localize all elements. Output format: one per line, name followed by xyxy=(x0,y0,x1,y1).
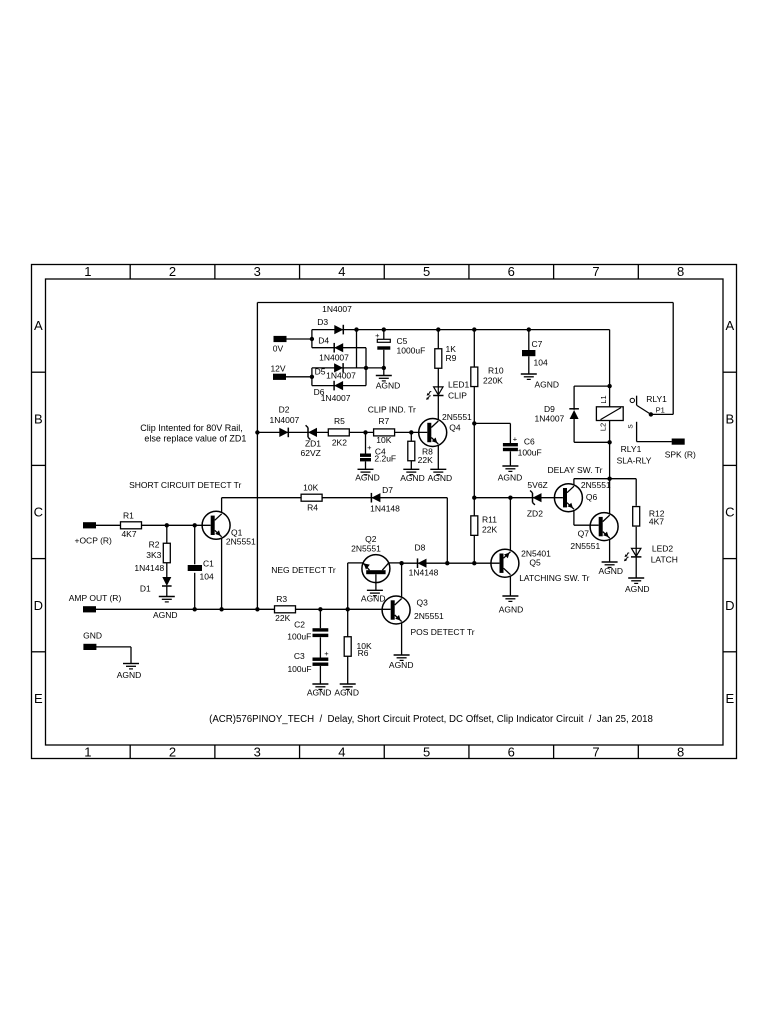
svg-text:C: C xyxy=(725,505,734,520)
svg-text:2: 2 xyxy=(169,264,176,279)
svg-text:Q6: Q6 xyxy=(586,492,598,502)
svg-text:AGND: AGND xyxy=(361,593,386,603)
svg-text:5V6Z: 5V6Z xyxy=(527,480,547,490)
svg-text:4K7: 4K7 xyxy=(649,517,664,527)
svg-text:100uF: 100uF xyxy=(287,664,311,674)
svg-text:4: 4 xyxy=(338,264,345,279)
svg-text:+: + xyxy=(375,331,380,340)
svg-text:LATCHING SW. Tr: LATCHING SW. Tr xyxy=(519,573,589,583)
svg-text:5: 5 xyxy=(423,744,430,759)
svg-text:4K7: 4K7 xyxy=(121,529,136,539)
svg-text:D3: D3 xyxy=(317,317,328,327)
svg-text:D5: D5 xyxy=(315,366,326,376)
svg-text:+: + xyxy=(513,435,518,444)
svg-text:2N5551: 2N5551 xyxy=(581,480,611,490)
svg-text:1N4007: 1N4007 xyxy=(270,415,300,425)
svg-text:1N4148: 1N4148 xyxy=(409,568,439,578)
svg-text:104: 104 xyxy=(534,358,548,368)
svg-text:R2: R2 xyxy=(149,539,160,549)
svg-text:RLY1: RLY1 xyxy=(646,394,667,404)
svg-text:1N4007: 1N4007 xyxy=(322,304,352,314)
svg-text:R4: R4 xyxy=(307,503,318,513)
svg-text:1N4148: 1N4148 xyxy=(370,504,400,514)
svg-text:AGND: AGND xyxy=(599,566,624,576)
svg-text:3: 3 xyxy=(254,264,261,279)
svg-text:2N5551: 2N5551 xyxy=(570,541,600,551)
svg-text:R11: R11 xyxy=(482,515,497,525)
svg-text:DELAY SW. Tr: DELAY SW. Tr xyxy=(548,465,603,475)
svg-text:D8: D8 xyxy=(414,543,425,553)
svg-text:8: 8 xyxy=(677,264,684,279)
svg-text:100uF: 100uF xyxy=(287,631,311,641)
svg-text:Q5: Q5 xyxy=(529,558,541,568)
svg-text:7: 7 xyxy=(592,744,599,759)
svg-text:1: 1 xyxy=(84,264,91,279)
svg-text:A: A xyxy=(34,318,43,333)
svg-text:D9: D9 xyxy=(544,404,555,414)
svg-text:2N5551: 2N5551 xyxy=(226,537,256,547)
svg-text:1: 1 xyxy=(84,744,91,759)
svg-text:D4: D4 xyxy=(318,336,329,346)
svg-text:C: C xyxy=(34,505,43,520)
svg-text:AGND: AGND xyxy=(625,584,650,594)
svg-text:D7: D7 xyxy=(382,485,393,495)
svg-text:3: 3 xyxy=(254,744,261,759)
svg-text:Q4: Q4 xyxy=(449,422,461,432)
svg-text:AGND: AGND xyxy=(307,688,332,698)
svg-text:SPK (R): SPK (R) xyxy=(665,450,696,460)
svg-text:1N4007: 1N4007 xyxy=(319,353,349,363)
svg-text:D1: D1 xyxy=(140,583,151,593)
svg-text:10K: 10K xyxy=(303,483,318,493)
svg-text:R5: R5 xyxy=(334,416,345,426)
svg-text:B: B xyxy=(34,411,43,426)
svg-text:2N5551: 2N5551 xyxy=(351,544,381,554)
svg-text:+: + xyxy=(367,443,372,452)
svg-text:4: 4 xyxy=(338,744,345,759)
svg-text:R10: R10 xyxy=(488,366,504,376)
svg-text:5: 5 xyxy=(423,264,430,279)
svg-text:L1: L1 xyxy=(599,395,608,403)
svg-text:C5: C5 xyxy=(397,336,408,346)
svg-text:P1: P1 xyxy=(656,406,665,415)
svg-text:12V: 12V xyxy=(270,363,285,373)
svg-text:1N4148: 1N4148 xyxy=(134,563,164,573)
svg-text:POS DETECT Tr: POS DETECT Tr xyxy=(410,627,474,637)
svg-text:AGND: AGND xyxy=(389,660,414,670)
svg-text:D2: D2 xyxy=(279,405,290,415)
svg-text:LATCH: LATCH xyxy=(651,554,678,564)
svg-text:R7: R7 xyxy=(378,416,389,426)
svg-text:0V: 0V xyxy=(273,344,284,354)
svg-text:Q2: Q2 xyxy=(365,534,377,544)
svg-text:104: 104 xyxy=(200,572,214,582)
svg-text:GND: GND xyxy=(83,631,102,641)
svg-text:AGND: AGND xyxy=(535,379,560,389)
svg-text:Clip Intented for 80V Rail,: Clip Intented for 80V Rail, xyxy=(140,423,243,433)
svg-text:6: 6 xyxy=(508,264,515,279)
svg-text:AGND: AGND xyxy=(498,473,523,483)
svg-text:CLIP IND. Tr: CLIP IND. Tr xyxy=(368,405,416,415)
svg-text:D: D xyxy=(725,598,734,613)
svg-text:ZD1: ZD1 xyxy=(305,438,321,448)
svg-text:C1: C1 xyxy=(203,558,214,568)
svg-text:R6: R6 xyxy=(358,648,369,658)
svg-text:3K3: 3K3 xyxy=(146,550,161,560)
svg-text:2: 2 xyxy=(169,744,176,759)
svg-text:ZD2: ZD2 xyxy=(527,509,543,519)
svg-text:2.2uF: 2.2uF xyxy=(374,454,396,464)
svg-text:AGND: AGND xyxy=(376,380,401,390)
svg-text:7: 7 xyxy=(592,264,599,279)
svg-text:else replace value of ZD1: else replace value of ZD1 xyxy=(144,433,246,443)
svg-text:22K: 22K xyxy=(482,524,497,534)
svg-text:22K: 22K xyxy=(418,455,433,465)
svg-text:AGND: AGND xyxy=(355,473,380,483)
svg-text:Q3: Q3 xyxy=(417,598,429,608)
svg-text:62VZ: 62VZ xyxy=(301,448,321,458)
svg-text:C6: C6 xyxy=(524,437,535,447)
svg-text:2N5551: 2N5551 xyxy=(442,412,472,422)
svg-text:L2: L2 xyxy=(599,423,608,431)
svg-text:1N4007: 1N4007 xyxy=(535,414,565,424)
svg-text:10K: 10K xyxy=(376,435,391,445)
svg-text:SLA-RLY: SLA-RLY xyxy=(617,456,652,466)
svg-text:+OCP (R): +OCP (R) xyxy=(74,535,112,545)
svg-text:C2: C2 xyxy=(294,619,305,629)
svg-text:C7: C7 xyxy=(532,339,543,349)
svg-text:A: A xyxy=(725,318,734,333)
svg-text:RLY1: RLY1 xyxy=(621,444,642,454)
svg-text:AGND: AGND xyxy=(153,610,178,620)
svg-text:AGND: AGND xyxy=(499,604,524,614)
svg-text:LED2: LED2 xyxy=(652,543,674,553)
svg-text:22K: 22K xyxy=(275,613,290,623)
svg-text:E: E xyxy=(725,691,734,706)
svg-text:NEG DETECT Tr: NEG DETECT Tr xyxy=(271,565,336,575)
svg-text:AMP OUT (R): AMP OUT (R) xyxy=(69,593,122,603)
svg-text:+: + xyxy=(324,649,329,658)
svg-text:S: S xyxy=(627,424,634,429)
svg-text:AGND: AGND xyxy=(400,473,425,483)
svg-text:1N4007: 1N4007 xyxy=(326,371,356,381)
svg-text:AGND: AGND xyxy=(334,688,359,698)
svg-text:E: E xyxy=(34,691,43,706)
svg-text:R9: R9 xyxy=(446,353,457,363)
svg-text:Q7: Q7 xyxy=(578,528,590,538)
svg-text:100uF: 100uF xyxy=(518,448,542,458)
svg-text:(ACR)576PINOY_TECH / Delay,: (ACR)576PINOY_TECH / Delay, Short Circui… xyxy=(209,714,653,725)
svg-text:D: D xyxy=(34,598,43,613)
svg-text:AGND: AGND xyxy=(428,473,453,483)
svg-text:8: 8 xyxy=(677,744,684,759)
svg-text:220K: 220K xyxy=(483,376,503,386)
svg-text:6: 6 xyxy=(508,744,515,759)
svg-text:LED1: LED1 xyxy=(448,380,470,390)
svg-text:B: B xyxy=(725,411,734,426)
svg-text:SHORT CIRCUIT DETECT Tr: SHORT CIRCUIT DETECT Tr xyxy=(129,480,241,490)
svg-text:AGND: AGND xyxy=(117,670,142,680)
svg-text:R1: R1 xyxy=(123,511,134,521)
svg-text:2N5551: 2N5551 xyxy=(414,611,444,621)
svg-text:1N4007: 1N4007 xyxy=(321,393,351,403)
svg-text:2K2: 2K2 xyxy=(332,437,347,447)
svg-text:1000uF: 1000uF xyxy=(397,346,426,356)
svg-text:C3: C3 xyxy=(294,651,305,661)
svg-text:CLIP: CLIP xyxy=(448,391,467,401)
svg-text:R3: R3 xyxy=(276,594,287,604)
